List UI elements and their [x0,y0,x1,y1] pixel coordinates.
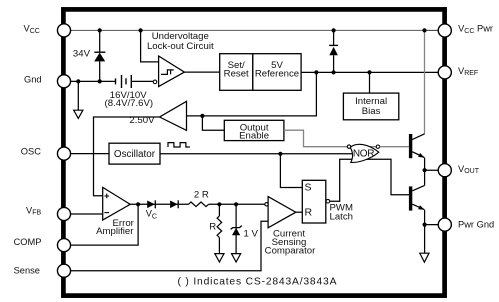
resistor 2R [189,202,209,207]
svg-text:VCC Pwr: VCC Pwr [458,24,493,35]
svg-text:(8.4V/7.6V): (8.4V/7.6V) [105,98,154,109]
ground symbol G1 [74,110,83,118]
node dot clock/S branch [278,152,282,156]
svg-text:Lock-out Circuit: Lock-out Circuit [147,41,214,52]
node dot Gnd/zener [98,79,102,83]
svg-text:Sense: Sense [14,265,40,275]
node dot VREF/Internal Bias [367,70,371,74]
pin VFB [57,207,70,220]
block PWM Latch [302,180,326,223]
wire gray under NOR gate [351,146,377,148]
wire UVLO comparator + input from Vcc rail [141,30,159,62]
op-amp U1 UVLO comparator [159,56,185,87]
wire Vcc rail gray middle segment [141,29,425,31]
bubble NOR output [376,145,379,148]
bubble on PWM latch output [326,199,330,203]
block Oscillator [109,143,160,164]
pin Vcc Pwr [438,24,451,37]
wire Gnd pin to battery [64,80,116,82]
wire gray NOR output to Q1 base [380,146,409,148]
block 5V Reference [253,54,301,91]
wire PWM latch output to lower transistor base (passes under NOR) [330,159,409,201]
svg-text:34V: 34V [73,49,91,60]
node dot 2R/1V zener [234,202,238,206]
svg-text:1 V: 1 V [244,228,259,239]
svg-text:COMP: COMP [14,237,42,247]
wire COMP pin up to Error Amplifier output [64,204,138,245]
wire U2 output to Error Amplifier + input [94,117,160,196]
svg-text:Gnd: Gnd [24,74,42,84]
wire VREF rail (5V Reference to VREF pin) [301,71,440,73]
wire gray Vcc Pwr down to Q1 collector [424,30,426,133]
node dot VOUT [423,168,427,172]
wire Internal Bias to VREF rail [369,72,371,93]
wire Vcc rail to Vcc Pwr pin [425,29,441,31]
wire Error Amplifier output line [130,203,265,205]
svg-text:S: S [305,182,312,194]
wire node to Output Enable input [202,116,224,130]
svg-text:R: R [209,221,216,232]
pin Sense [57,264,70,277]
op-amp U3 Error Amplifier [103,187,131,220]
zener diode D5 1V [232,228,240,235]
pin Vcc [57,24,70,37]
wire OSC pin to Oscillator [64,153,109,155]
node dot 2R/R [217,202,221,206]
svg-text:Latch: Latch [330,211,353,222]
svg-text:Pwr Gnd: Pwr Gnd [458,219,494,229]
battery B1 16V/10V [115,78,117,84]
wire clock to PWM latch S input [280,154,302,188]
pin Pwr Gnd [438,218,451,231]
bubble NOR input [347,145,350,148]
hysteresis glyph inside U1 [161,70,174,75]
wire ground stub below Gnd line [77,81,79,110]
wire VOUT down to Q2 collector [424,170,426,185]
transistor Q2 base bar [409,186,412,210]
ground symbol G3 [232,254,241,262]
node dot Vcc rail/diode D2 [332,28,336,32]
block Output Enable [224,120,284,140]
transistor Q2 emitter with arrow [412,204,424,209]
node dot Pwr Gnd [423,223,427,227]
ground symbol G2 [215,254,224,262]
pin VREF [438,66,451,79]
wire gray Output Enable to NOR input [284,130,347,147]
svg-text:OSC: OSC [21,147,41,157]
block Set/Reset [220,54,253,91]
node dot Gnd/ground stub [76,79,80,83]
node dot Error Amp output/COMP [136,202,140,206]
IC boundary border [63,9,444,295]
transistor Q1 base bar [409,134,412,158]
svg-text:Enable: Enable [239,131,269,142]
wire diode D2 branch (Vcc rail to VREF rail) [333,30,335,72]
pin OSC [57,147,70,160]
wire Q2 emitter to ground [424,225,426,254]
pin VOUT [438,164,451,177]
plus mark inside U3 [104,194,109,199]
bubble on U1 inverting input [153,80,157,84]
wire Sense pin to Current Sensing Comparator [64,221,268,270]
svg-text:R: R [305,207,313,219]
resistor R (vertical) [217,216,222,238]
wire Vcc rail (pin Vcc to dot A) [64,29,141,31]
gate U5 NOR [350,144,379,162]
op-amp U4 Current Sensing Comparator [268,197,296,228]
node dot VREF/diode D2 [332,70,336,74]
transistor Q2 collector [412,185,424,190]
block Internal Bias [343,93,398,120]
wire 34V zener branch (Vcc rail to Gnd line) [99,30,101,81]
svg-text:2 R: 2 R [194,190,209,201]
wire 1V zener branch to ground [235,204,237,253]
svg-text:Comparator: Comparator [265,246,316,257]
diode D4 [170,201,178,209]
wire Q2 emitter to Pwr Gnd [425,210,440,225]
diode D2 [329,44,338,46]
pin COMP [57,239,70,252]
waveform glyph near Oscillator [168,143,190,147]
svg-text:Reference: Reference [255,69,299,80]
wire VREF down to 2.50V comparator input [187,72,317,116]
svg-text:Oscillator: Oscillator [114,149,156,160]
ground symbol G4 [420,253,429,262]
bubble on U4 inverting input [265,203,268,206]
svg-text:( ) Indicates CS-2843A/3843A: ( ) Indicates CS-2843A/3843A [178,276,338,287]
wire battery to UVLO comparator bubble [131,80,153,82]
wire U4 output to PWM latch R input [296,211,303,213]
node dot Vcc Pwr rail [422,28,426,32]
op-amp U2 2.50V comparator (points left) [160,101,187,130]
svg-text:NOR: NOR [353,148,374,159]
wire VFB pin to Error Amplifier - input [64,213,103,215]
transistor Q1 emitter with arrow [412,152,424,158]
minus mark inside U3 [104,212,109,214]
wire U1 output to Set/Reset [184,71,219,73]
wire oscillator clock line to NOR [160,153,353,155]
node dot VREF/2.50V branch [314,70,318,74]
node dot 2.50V/Output Enable [200,114,204,118]
node dot Vcc/UVLO [139,28,143,32]
svg-text:Amplifier: Amplifier [96,226,134,237]
pin Gnd [57,75,70,88]
svg-text:Bias: Bias [362,106,381,117]
wire Q1 emitter to VOUT [425,158,440,171]
diode D3 [147,201,155,209]
wire 2R node down through R resistor to ground [218,204,220,253]
node dot Vcc/zener [98,28,102,32]
transistor Q1 collector [412,134,424,140]
svg-text:Reset: Reset [224,69,249,80]
zener diode D1 34V [94,51,105,53]
